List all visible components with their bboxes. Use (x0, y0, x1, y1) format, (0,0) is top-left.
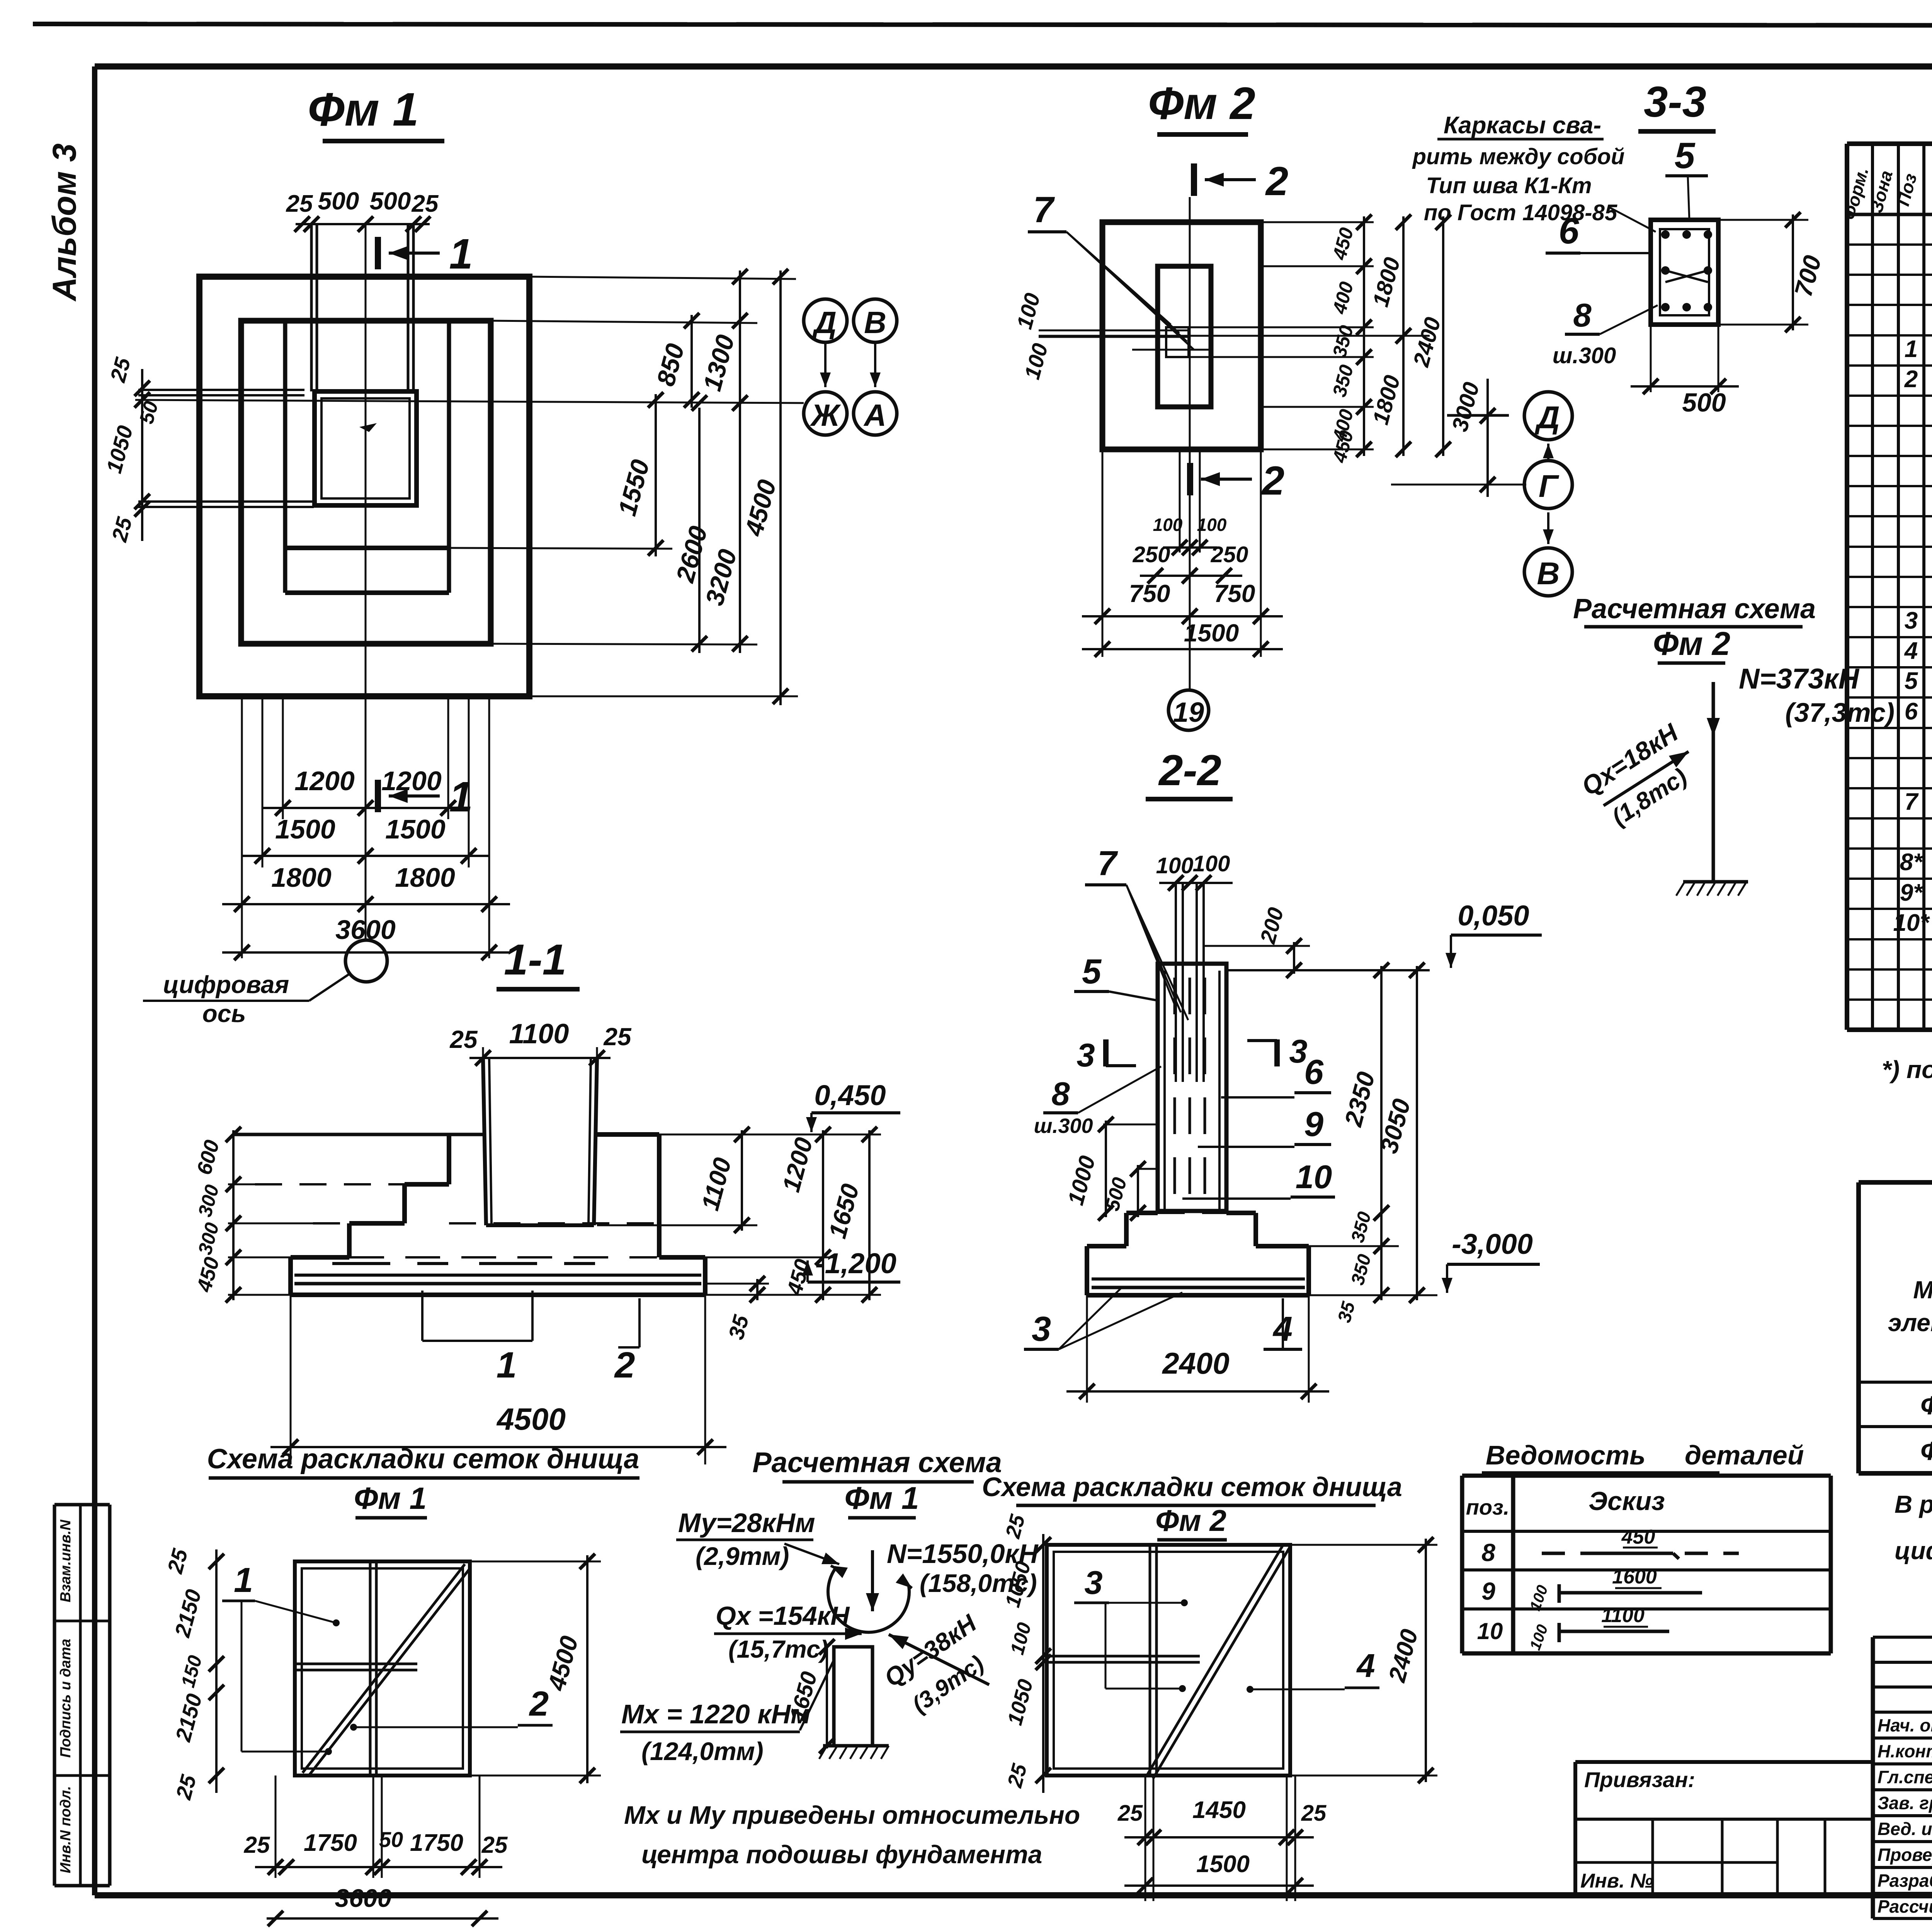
svg-text:N=373кН: N=373кН (1739, 663, 1860, 695)
svg-text:Схема раскладки сеток днища: Схема раскладки сеток днища (207, 1444, 639, 1475)
svg-text:9*: 9* (1900, 879, 1923, 906)
svg-text:19: 19 (1173, 697, 1204, 728)
svg-text:Расчетная схема: Расчетная схема (1573, 594, 1816, 624)
svg-text:7: 7 (1905, 789, 1919, 815)
svg-text:Привязан:: Привязан: (1584, 1767, 1695, 1792)
svg-text:Подпись и дата: Подпись и дата (58, 1639, 74, 1758)
svg-text:Д: Д (812, 305, 837, 340)
svg-text:Ж: Ж (810, 398, 841, 432)
svg-text:-1,200: -1,200 (815, 1247, 896, 1279)
svg-text:Ведомость: Ведомость (1486, 1440, 1646, 1470)
svg-text:Фм 1: Фм 1 (844, 1481, 919, 1516)
svg-text:6: 6 (1559, 211, 1580, 252)
svg-text:цифровая: цифровая (163, 971, 289, 998)
svg-text:1800: 1800 (395, 862, 455, 893)
svg-text:9: 9 (1481, 1577, 1495, 1605)
svg-text:поз.: поз. (1466, 1495, 1510, 1519)
svg-text:750: 750 (1129, 580, 1170, 607)
svg-text:1600: 1600 (1612, 1566, 1657, 1588)
svg-text:1750: 1750 (410, 1830, 463, 1856)
svg-text:7: 7 (1097, 844, 1118, 883)
svg-text:Н.контр: Н.контр (1878, 1741, 1932, 1761)
svg-text:25: 25 (603, 1023, 632, 1051)
svg-text:2: 2 (1904, 366, 1918, 393)
svg-text:Фм 1: Фм 1 (308, 83, 418, 136)
svg-text:2400: 2400 (1162, 1346, 1230, 1380)
svg-text:4: 4 (1904, 638, 1918, 664)
svg-text:750: 750 (1214, 580, 1255, 607)
svg-text:25: 25 (244, 1832, 270, 1858)
svg-text:3600: 3600 (335, 1884, 392, 1912)
svg-text:-3,000: -3,000 (1452, 1228, 1533, 1260)
svg-text:100: 100 (1197, 515, 1227, 535)
svg-text:Mх = 1220 кНм: Mх = 1220 кНм (621, 1699, 811, 1729)
svg-text:Д: Д (1534, 400, 1560, 435)
svg-text:Зав. гр: Зав. гр (1878, 1793, 1932, 1813)
svg-text:7: 7 (1033, 189, 1055, 230)
svg-text:10: 10 (1477, 1618, 1503, 1644)
svg-text:Рассчит: Рассчит (1878, 1896, 1932, 1917)
svg-text:Расчетная схема: Расчетная схема (752, 1446, 1002, 1478)
svg-text:В: В (1537, 556, 1560, 591)
svg-text:Фм 2: Фм 2 (1920, 1436, 1932, 1466)
svg-text:Разраб: Разраб (1878, 1871, 1932, 1891)
svg-text:1450: 1450 (1192, 1797, 1246, 1823)
svg-text:В: В (864, 305, 886, 340)
svg-text:100: 100 (1193, 851, 1230, 876)
svg-text:8: 8 (1573, 297, 1592, 334)
svg-text:1-1: 1-1 (504, 935, 566, 984)
svg-text:10: 10 (1296, 1159, 1332, 1196)
svg-text:1100: 1100 (509, 1019, 569, 1049)
svg-text:Нач. отд: Нач. отд (1878, 1715, 1932, 1735)
svg-text:8: 8 (1051, 1076, 1070, 1112)
svg-text:Му=28кНм: Му=28кНм (678, 1508, 815, 1538)
svg-text:5: 5 (1675, 135, 1696, 176)
svg-text:ш.300: ш.300 (1034, 1114, 1093, 1138)
svg-text:1: 1 (1905, 336, 1918, 362)
svg-text:Фм 2: Фм 2 (1155, 1503, 1226, 1537)
svg-text:Каркасы сва-: Каркасы сва- (1444, 112, 1601, 139)
svg-text:(37,3тс): (37,3тс) (1785, 697, 1895, 728)
svg-text:500: 500 (370, 187, 411, 215)
svg-text:Фм 2: Фм 2 (1148, 78, 1255, 129)
svg-text:8: 8 (1481, 1539, 1495, 1566)
svg-text:Фм 1: Фм 1 (1920, 1391, 1932, 1420)
svg-text:2-2: 2-2 (1158, 746, 1221, 794)
svg-text:0,050: 0,050 (1458, 900, 1529, 932)
svg-text:*) поз. 8...10 см. Ведомость д: *) поз. 8...10 см. Ведомость деталей (1882, 1056, 1932, 1083)
svg-text:3: 3 (1905, 607, 1918, 634)
svg-text:10*: 10* (1893, 910, 1930, 936)
svg-text:1800: 1800 (271, 862, 332, 893)
svg-text:Фм 2: Фм 2 (1653, 626, 1730, 662)
svg-text:рить между собой: рить между собой (1412, 144, 1625, 169)
svg-text:2: 2 (1261, 458, 1284, 503)
svg-text:А: А (863, 398, 886, 432)
svg-text:25: 25 (449, 1026, 478, 1053)
svg-text:Мх и Му приведены относитель: Мх и Му приведены относительно (624, 1801, 1080, 1829)
svg-text:1500: 1500 (385, 814, 446, 844)
svg-text:Тип шва К1-Кт: Тип шва К1-Кт (1426, 173, 1592, 198)
svg-text:3: 3 (1032, 1310, 1051, 1349)
svg-text:500: 500 (318, 187, 359, 215)
svg-text:450: 450 (1621, 1526, 1655, 1548)
svg-text:1500: 1500 (1196, 1851, 1250, 1878)
svg-text:1750: 1750 (304, 1830, 357, 1856)
svg-text:250: 250 (1211, 542, 1248, 567)
svg-text:Взам.инв.N: Взам.инв.N (58, 1519, 74, 1602)
svg-text:1500: 1500 (1184, 619, 1239, 647)
svg-text:(124,0тм): (124,0тм) (641, 1737, 764, 1765)
svg-text:50: 50 (379, 1827, 403, 1852)
svg-text:2: 2 (1265, 159, 1288, 204)
svg-text:8*: 8* (1900, 849, 1923, 876)
svg-text:Альбом 3: Альбом 3 (46, 143, 83, 302)
svg-text:3-3: 3-3 (1644, 78, 1706, 126)
svg-text:цифровой оси.: цифровой оси. (1895, 1537, 1932, 1565)
svg-text:100: 100 (1156, 853, 1194, 878)
svg-text:2: 2 (614, 1345, 635, 1386)
svg-text:(2,9тм): (2,9тм) (696, 1542, 789, 1570)
svg-text:3: 3 (1084, 1565, 1102, 1601)
svg-text:Провер: Провер (1878, 1845, 1932, 1865)
svg-text:250: 250 (1133, 542, 1170, 567)
svg-text:Фм 1: Фм 1 (354, 1481, 427, 1515)
svg-text:1: 1 (497, 1345, 517, 1386)
svg-text:25: 25 (286, 190, 313, 217)
svg-text:3: 3 (1289, 1033, 1307, 1070)
svg-text:9: 9 (1304, 1105, 1323, 1144)
svg-text:В расчетных схемах усилия с: В расчетных схемах усилия с индексом х н… (1895, 1490, 1932, 1518)
svg-text:1: 1 (234, 1561, 253, 1600)
svg-text:ось: ось (202, 1000, 246, 1027)
svg-text:1: 1 (449, 230, 473, 278)
svg-text:Эскиз: Эскиз (1588, 1486, 1665, 1516)
svg-text:Схема раскладки сеток днища: Схема раскладки сеток днища (982, 1472, 1402, 1502)
svg-text:100: 100 (1153, 515, 1183, 535)
svg-text:3: 3 (1077, 1037, 1095, 1074)
svg-text:6: 6 (1905, 698, 1918, 725)
svg-text:Г: Г (1539, 469, 1560, 504)
svg-text:по Гост 14098-85: по Гост 14098-85 (1424, 200, 1617, 225)
svg-text:2: 2 (529, 1685, 549, 1723)
svg-text:5: 5 (1082, 952, 1102, 991)
svg-text:(15,7тс): (15,7тс) (728, 1635, 828, 1663)
svg-text:центра подошвы фундамент: центра подошвы фундамента (641, 1840, 1042, 1869)
svg-text:Инв.N подл.: Инв.N подл. (58, 1786, 74, 1873)
svg-text:Марка: Марка (1913, 1276, 1932, 1304)
svg-text:25: 25 (481, 1832, 508, 1858)
svg-text:4500: 4500 (496, 1402, 566, 1436)
svg-text:Гл.спец: Гл.спец (1878, 1767, 1932, 1787)
svg-text:1100: 1100 (1601, 1604, 1645, 1627)
svg-text:5: 5 (1905, 668, 1918, 694)
svg-text:25: 25 (1301, 1801, 1327, 1826)
svg-text:0,450: 0,450 (814, 1079, 886, 1111)
svg-text:ш.300: ш.300 (1553, 343, 1616, 368)
svg-text:деталей: деталей (1685, 1440, 1804, 1470)
svg-text:25: 25 (1117, 1801, 1143, 1826)
svg-text:1200: 1200 (294, 766, 355, 796)
svg-text:1200: 1200 (381, 766, 442, 796)
svg-text:25: 25 (412, 190, 439, 217)
svg-text:Инв. №: Инв. № (1580, 1870, 1653, 1892)
svg-text:Qx =154кН: Qx =154кН (716, 1601, 850, 1631)
svg-text:500: 500 (1682, 388, 1726, 417)
svg-text:Вед. ин: Вед. ин (1878, 1819, 1932, 1839)
svg-text:элемента: элемента (1888, 1309, 1932, 1337)
svg-text:1500: 1500 (275, 814, 335, 844)
svg-text:4: 4 (1356, 1648, 1375, 1684)
